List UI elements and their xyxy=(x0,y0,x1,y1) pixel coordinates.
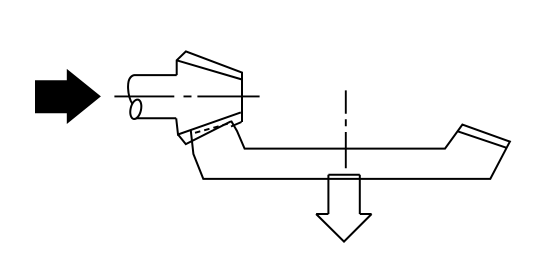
vertical centerline (dash-dot) xyxy=(345,90,347,168)
hidden edge (dashed) inside bottom strip xyxy=(195,123,232,133)
solid input arrow (left, filled black, pointing right) xyxy=(35,69,101,124)
tapered block: top-strip lower edge xyxy=(177,60,242,79)
tapered block: bottom-right corner segment xyxy=(231,122,242,127)
handle tip: end-face lower edge xyxy=(457,131,506,148)
cylindrical boss: top edge with left end arc xyxy=(128,75,177,104)
cylindrical boss: end-face ellipse loop xyxy=(129,98,144,120)
output down arrow (outline): shaft cap, shaft sides, flanges, head xyxy=(316,175,372,242)
handle bar outline: bottom-strip lower edge, right neck, top edge, upturned tip, bottom edge, left neck xyxy=(178,122,510,179)
tapered block: left edge, top chamfer, top-strip upper edge, right edge xyxy=(177,51,242,122)
tapered block: lower-left edge and bottom-strip upper edge xyxy=(176,112,241,134)
horizontal centerline (dash-dot) xyxy=(114,95,259,97)
cylindrical boss: bottom edge xyxy=(136,117,176,119)
